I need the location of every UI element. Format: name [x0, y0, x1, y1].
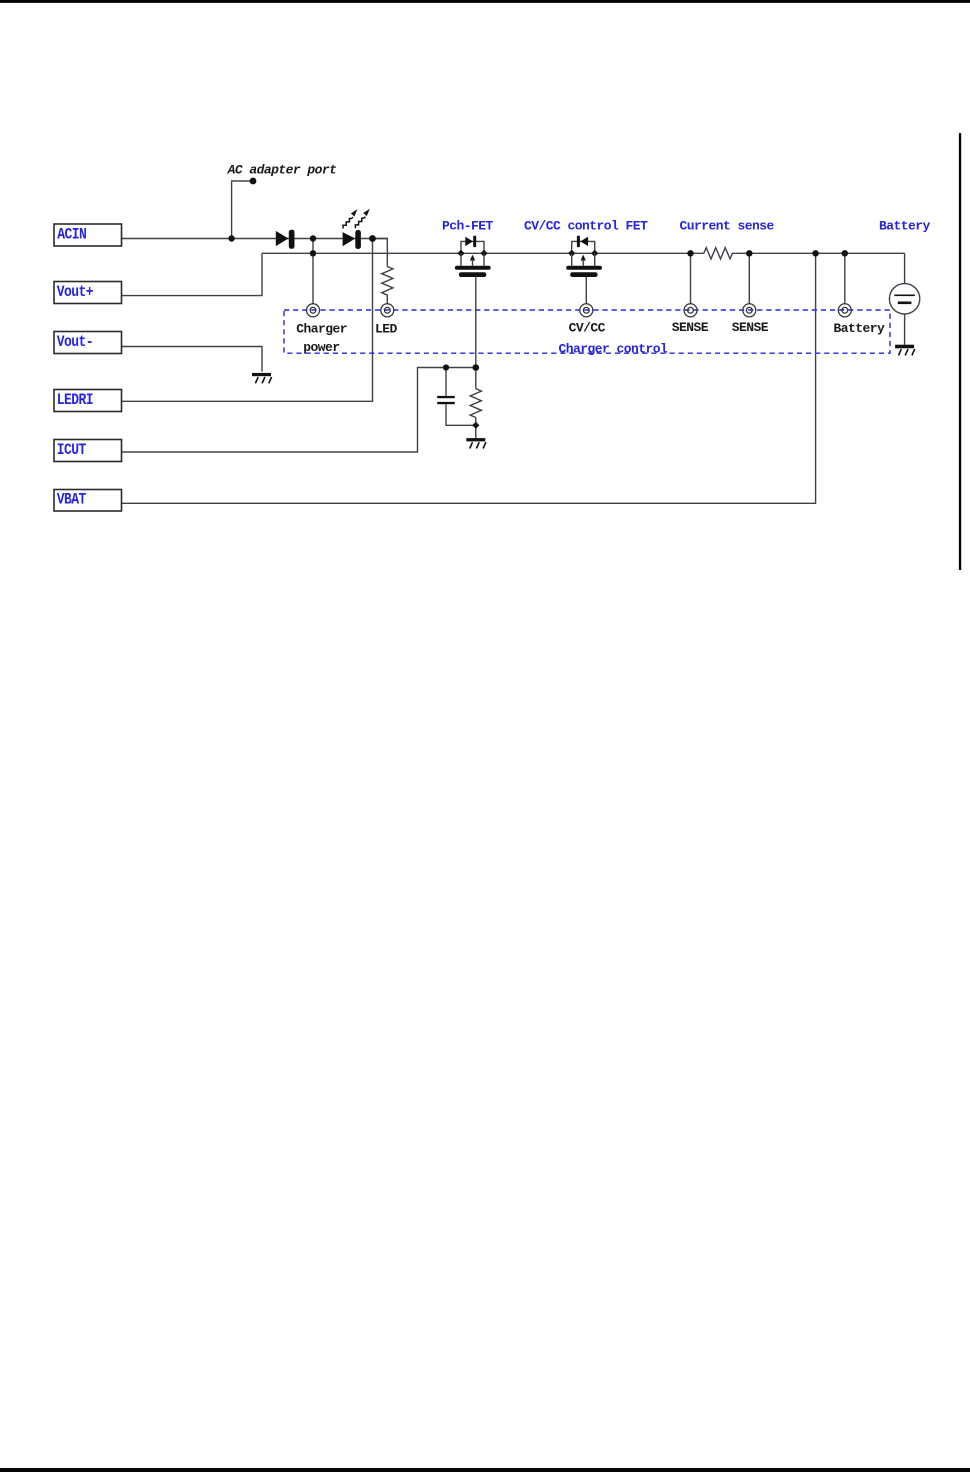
- resistor R1 LED series: [382, 267, 393, 298]
- wire SENSE terminal drops: [691, 253, 750, 304]
- node diode-LED junction: [310, 235, 316, 241]
- node LED cathode junction: [369, 235, 376, 242]
- svg-text:Vout+: Vout+: [57, 284, 93, 301]
- port box VBAT: [54, 490, 122, 512]
- svg-text:ICUT: ICUT: [57, 442, 87, 459]
- wire main rail: [262, 252, 905, 254]
- diode D1 input: [276, 230, 295, 249]
- svg-text:CV/CC: CV/CC: [569, 321, 606, 336]
- resistor R3 ICUT shunt: [470, 389, 481, 418]
- wire ACIN to diode rail: [122, 238, 389, 240]
- svg-text:ACIN: ACIN: [57, 226, 86, 243]
- node ICUT ground diamond junction: [472, 422, 479, 429]
- port box Vout+: [54, 282, 122, 304]
- node VBAT junction: [812, 250, 818, 256]
- node ICUT cap junction: [443, 364, 449, 370]
- wire Battery terminal drop: [844, 253, 846, 304]
- svg-text:LED: LED: [375, 321, 398, 336]
- terminal SENSE right: [743, 304, 756, 317]
- wire CV/CC terminal drop: [585, 277, 587, 304]
- wire Pch-FET drain drop: [475, 277, 477, 368]
- capacitor C1 plates: [437, 396, 455, 404]
- node rail charger-power junction: [310, 250, 316, 256]
- svg-text:AC adapter port: AC adapter port: [227, 162, 337, 177]
- SCHEMATIC: [122, 181, 905, 503]
- charger control dashed box: [284, 310, 890, 353]
- node ICUT resistor junction: [473, 364, 480, 371]
- svg-text:Vout-: Vout-: [57, 334, 93, 351]
- wire LEDRI net: [122, 239, 373, 402]
- ground battery: [895, 345, 915, 356]
- svg-text:Current sense: Current sense: [680, 219, 775, 234]
- transistor Q2 CV/CC control FET: [566, 236, 602, 277]
- terminal SENSE left: [684, 304, 697, 317]
- svg-text:Battery: Battery: [879, 219, 931, 234]
- wire VBAT net: [122, 253, 816, 503]
- node SENSE right junction: [746, 250, 752, 256]
- wire ICUT net: [122, 368, 476, 453]
- LED D2: [343, 230, 361, 249]
- terminal LED: [381, 304, 394, 317]
- svg-text:Charger control: Charger control: [559, 341, 669, 356]
- svg-text:Pch-FET: Pch-FET: [442, 219, 494, 234]
- svg-text:VBAT: VBAT: [57, 492, 87, 509]
- transistor Q1 Pch-FET body loop: [461, 241, 484, 253]
- node AC adapter port: [250, 178, 257, 185]
- port box ACIN: [54, 224, 122, 246]
- transistor Q2 CV/CC FET body loop: [572, 241, 595, 253]
- LED D2 emission arrows: [343, 217, 365, 229]
- port box Vout-: [54, 332, 122, 354]
- wire Vout+ feed: [122, 253, 263, 295]
- svg-text:SENSE: SENSE: [672, 320, 709, 335]
- node ACIN junction: [228, 235, 234, 241]
- wire Charger-power terminal drop: [312, 239, 314, 305]
- svg-text:Battery: Battery: [834, 321, 886, 336]
- wire capacitor leads: [446, 368, 476, 426]
- port box ICUT: [54, 440, 122, 462]
- wire ICUT resistor to ground: [475, 368, 477, 439]
- port box LEDRI: [54, 390, 122, 412]
- terminal Battery: [838, 304, 851, 317]
- resistor R2 current sense: [704, 248, 736, 259]
- node battery terminal junction: [842, 250, 848, 256]
- terminal Charger power: [307, 304, 320, 317]
- wire LED resistor branch: [373, 239, 388, 305]
- ground ICUT network: [466, 438, 486, 448]
- wire AC adapter stub: [232, 181, 251, 239]
- svg-text:SENSE: SENSE: [732, 320, 769, 335]
- wire Vout- to ground: [122, 347, 263, 372]
- node SENSE left junction: [687, 250, 693, 256]
- wire battery cell leads: [904, 253, 906, 344]
- ground Vout-: [252, 373, 272, 383]
- terminal CV/CC: [580, 304, 593, 317]
- svg-text:Charger: Charger: [296, 321, 347, 336]
- svg-text:LEDRI: LEDRI: [57, 392, 93, 409]
- battery cell BT1: [889, 284, 919, 314]
- svg-text:power: power: [303, 340, 339, 355]
- transistor Q1 Pch-FET: [455, 236, 491, 277]
- svg-text:CV/CC control FET: CV/CC control FET: [524, 219, 648, 234]
